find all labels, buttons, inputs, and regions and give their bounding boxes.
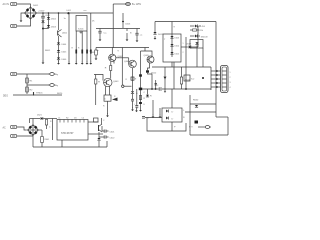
svg-text:R·: R·	[183, 117, 185, 119]
resistor R602 column	[68, 13, 70, 62]
transistor Q602	[109, 54, 124, 61]
wire pin3	[211, 78, 221, 80]
wire CRT mid right edge	[210, 67, 212, 90]
wire T601 primary feed	[171, 22, 173, 35]
svg-text:C621: C621	[110, 131, 116, 133]
resistor R605 column	[86, 31, 90, 62]
ground Q601 column	[57, 61, 60, 65]
ground chain	[139, 108, 142, 112]
text R630	[193, 100, 199, 102]
ground C606	[99, 38, 102, 42]
capacitor C601	[41, 13, 51, 62]
diode D627 on x165	[164, 77, 167, 80]
svg-text:1: 1	[230, 72, 231, 74]
junction A R text	[150, 96, 152, 98]
junction dot x186 rail	[185, 88, 187, 90]
svg-text:Q603: Q603	[113, 81, 119, 83]
svg-text:···: ···	[189, 130, 191, 132]
wire snubber branch	[122, 13, 124, 28]
wire IC right to Q606	[88, 121, 99, 123]
wire drive rail	[96, 47, 149, 49]
svg-text:1: 1	[183, 43, 184, 45]
ground C601	[42, 61, 45, 65]
wire right rail y89	[140, 88, 211, 90]
wire box drop	[171, 122, 173, 131]
resistor R612 row2	[190, 29, 203, 32]
text bus aa	[84, 10, 88, 12]
wire right partition	[215, 22, 217, 118]
text T601 pins	[183, 43, 184, 54]
text T601	[164, 39, 166, 41]
wire drive to Q605	[141, 48, 153, 57]
wire B+ horizontal	[113, 3, 125, 5]
svg-text:D3: D3	[74, 118, 76, 120]
svg-text:Q604: Q604	[124, 61, 130, 63]
ground R603	[75, 61, 78, 65]
ground R606	[89, 61, 92, 65]
diode D625	[166, 110, 174, 114]
wire column x52	[49, 119, 53, 141]
diode on C601 column	[41, 21, 44, 23]
wire Q603 base	[94, 75, 103, 81]
wire x172 from rail	[171, 89, 173, 108]
text IC601 inside	[61, 132, 74, 135]
wire pin5	[211, 86, 221, 88]
bridge rectifier D601	[24, 7, 37, 20]
svg-text:D614: D614	[175, 46, 180, 48]
text connector pins	[230, 72, 231, 89]
resistor R642	[139, 96, 145, 101]
resistor R610 branch	[95, 75, 101, 106]
junction node bus	[67, 10, 72, 14]
wire bridge bottom to terminal J2	[17, 20, 31, 27]
wire bottom rail	[33, 146, 107, 148]
diode D613	[170, 36, 179, 40]
wire B+ feed vertical	[112, 4, 114, 48]
resistor R606 column	[90, 13, 95, 62]
wire deg horizontal 85	[27, 84, 50, 86]
diode D602	[47, 17, 57, 21]
svg-text:3: 3	[230, 82, 231, 84]
svg-text:Q601: Q601	[62, 33, 68, 35]
wire Q602 leg b	[113, 61, 115, 64]
wire deg horizontal 74	[17, 73, 49, 75]
diode D619	[195, 105, 198, 107]
svg-text:IC601: IC601	[78, 29, 84, 31]
ground D611	[154, 36, 157, 40]
svg-text:B+ 115V: B+ 115V	[132, 3, 141, 6]
pin circle anode	[204, 126, 211, 129]
capacitor C608 column	[135, 29, 142, 39]
diode D621	[37, 115, 43, 121]
wire crt right edge	[227, 117, 229, 135]
resistor R608	[90, 48, 97, 58]
svg-text:D617: D617	[186, 44, 192, 46]
text AC input label	[3, 3, 10, 6]
transformer winding line	[171, 34, 173, 57]
wire fbt to pin	[198, 126, 204, 128]
wire Q604 emitter	[132, 68, 134, 91]
box aux left	[94, 118, 99, 122]
resistor R640	[45, 120, 52, 130]
svg-text:R2: R2	[66, 118, 68, 120]
text P label	[174, 127, 176, 129]
wire vertical x174	[173, 62, 175, 89]
svg-text:D602: D602	[51, 19, 57, 21]
diode D617	[181, 44, 198, 49]
resistor R604 column	[78, 31, 83, 62]
diode D618 row1	[190, 25, 206, 29]
wire bridge2 top diode	[32, 119, 34, 125]
diode D606	[57, 58, 67, 62]
wire Q604 base	[116, 58, 129, 64]
text bus voltage	[38, 11, 45, 13]
svg-text:DEG: DEG	[3, 96, 8, 98]
resistor R641	[39, 130, 50, 147]
capacitor C620	[102, 126, 104, 131]
wire T601 bottom pin	[171, 62, 173, 67]
wire main HV bus	[37, 12, 113, 14]
wire crt bottom left edge	[189, 112, 191, 135]
ground x160	[159, 108, 162, 118]
resistor R622	[26, 87, 33, 92]
svg-text:2: 2	[230, 77, 231, 79]
diode D611 to ground	[153, 22, 163, 37]
box IC inside	[184, 75, 195, 81]
svg-text:R620: R620	[57, 93, 63, 95]
svg-text:C622: C622	[110, 137, 116, 139]
junction dot crt	[202, 77, 204, 79]
text above IC	[58, 118, 84, 120]
wire bridge left stub	[21, 13, 24, 19]
diode D622	[97, 132, 100, 147]
wire crt bottom edge	[190, 134, 228, 136]
svg-text:2: 2	[183, 52, 184, 54]
diode D605	[57, 50, 67, 58]
transistor Q603	[104, 78, 120, 86]
svg-text:H·V: H·V	[189, 127, 193, 129]
wire crt step edge	[216, 116, 228, 118]
diode D604	[57, 43, 67, 51]
transistor Q601	[58, 30, 68, 38]
text winding 9	[174, 27, 176, 29]
ground C608	[136, 39, 139, 43]
text B+ 115V	[132, 3, 141, 6]
capacitor C631	[142, 117, 149, 120]
ground R608	[95, 57, 98, 61]
ground x153	[152, 100, 155, 118]
fuse F601	[126, 2, 131, 5]
box remote RB4	[162, 108, 182, 122]
diode D616 row	[190, 35, 208, 39]
svg-text:R601: R601	[45, 50, 51, 52]
junction dot C601	[42, 28, 44, 30]
ground R602	[68, 61, 71, 65]
wire bias down	[103, 101, 108, 114]
connector CN601	[221, 66, 229, 93]
text label 1a	[64, 18, 67, 20]
text R601	[45, 50, 51, 52]
wire crt lower rail upper	[190, 103, 216, 105]
wire rail upturn	[106, 141, 108, 147]
svg-text:C4: C4	[82, 118, 84, 120]
component fbt blob	[195, 121, 199, 124]
wire standby out	[88, 133, 103, 135]
box heater	[190, 40, 203, 49]
junction dots bus	[42, 12, 59, 14]
resistor zigzag on x1325	[126, 77, 138, 81]
capacitor C605 mark	[122, 22, 131, 26]
svg-text:+310V: +310V	[38, 11, 45, 13]
ground C630	[135, 109, 138, 113]
stub open circle	[122, 85, 132, 87]
transistor Q606	[99, 118, 106, 132]
diode D603	[47, 25, 57, 29]
ground col x132	[131, 94, 134, 111]
wire right rail y67	[152, 66, 211, 68]
ground at bridge left	[20, 19, 23, 23]
svg-text:Q605: Q605	[144, 55, 150, 57]
wire deg line	[13, 93, 63, 95]
diode D629	[131, 91, 138, 95]
junction dot x1555 rail	[155, 88, 157, 90]
diode D614	[170, 44, 179, 48]
wire branch D602	[43, 13, 49, 29]
wire Q605 emitter	[148, 63, 150, 71]
wire pin2	[211, 74, 221, 76]
text fbt	[189, 127, 193, 132]
wire top rail right	[155, 21, 216, 23]
wire Q605 emitter chain	[148, 73, 153, 89]
junction emitter rail	[151, 88, 153, 90]
svg-text:C605: C605	[125, 24, 131, 26]
wire Q601 to chain	[58, 36, 60, 43]
resistor R611	[180, 67, 190, 89]
wire right vertical x186	[185, 37, 187, 89]
transformer T601 box	[163, 34, 181, 62]
svg-text:D615: D615	[175, 54, 180, 56]
component pot arrow	[112, 96, 118, 101]
resistor R621	[26, 78, 33, 83]
svg-text:STR-S6707: STR-S6707	[61, 132, 74, 135]
wire Q602 collector	[111, 48, 113, 55]
wire pin4	[211, 82, 221, 84]
wire vertical x165	[164, 67, 166, 89]
box bias network	[104, 95, 111, 101]
diode D626	[166, 117, 174, 121]
wire bridge2 bottom	[32, 136, 34, 147]
text AC2 label	[3, 126, 7, 129]
svg-text:D·: D·	[172, 112, 174, 114]
ground bias	[106, 114, 109, 118]
capacitor C606 column	[98, 29, 107, 38]
svg-text:+C: +C	[140, 35, 143, 37]
wire pin1	[211, 70, 221, 72]
capacitor C621	[104, 130, 115, 134]
wire J1 to bridge top	[17, 4, 31, 7]
wire C631 to box	[145, 117, 162, 119]
wire J3 to bridge2	[17, 127, 27, 130]
diode D628 end	[146, 95, 149, 97]
capacitor C630	[134, 89, 138, 109]
text rail label	[96, 49, 120, 52]
text deg left	[3, 96, 8, 98]
text pin J	[183, 110, 185, 119]
svg-text:1N4148: 1N4148	[201, 36, 209, 38]
terminal J1 AC line	[11, 2, 17, 5]
capacitor C607 column	[127, 29, 132, 38]
svg-text:D601: D601	[33, 5, 39, 7]
IC pins ticks	[60, 120, 84, 123]
svg-text:R608: R608	[90, 52, 96, 54]
terminal DEG1	[11, 72, 17, 75]
terminal J4	[11, 134, 17, 137]
wire L below box	[147, 118, 186, 132]
svg-text:R1k: R1k	[200, 30, 204, 32]
terminal J3	[11, 125, 17, 128]
ground stub x165	[164, 89, 166, 93]
ground R605	[86, 61, 89, 65]
ground R604	[81, 61, 84, 65]
wire branch Q601 column	[58, 13, 60, 30]
transistor Q604	[124, 60, 136, 68]
text bridge label	[33, 5, 39, 7]
wire deg branch	[26, 74, 28, 94]
wire Q603 legs	[106, 86, 110, 95]
IC box control	[76, 16, 87, 34]
svg-text:D·: D·	[172, 119, 174, 121]
bridge rectifier D620	[27, 124, 39, 136]
wire mid vertical x122	[121, 48, 123, 85]
wire stub below rail	[147, 89, 149, 95]
diode D624	[139, 102, 145, 106]
pin circle DEG out2	[49, 84, 59, 88]
wire IC bottom to rail	[61, 140, 63, 147]
component thermistor	[34, 92, 44, 96]
wire vertical x203	[202, 48, 204, 67]
wire snubber rail	[96, 28, 140, 30]
svg-text:R630: R630	[193, 100, 199, 102]
wire crt lower rail	[185, 111, 216, 113]
wire right vertical x198	[197, 26, 199, 47]
svg-text:D613: D613	[175, 38, 180, 40]
IC601 STR box	[57, 120, 88, 141]
capacitor stub x1557	[155, 80, 158, 89]
svg-text:C1: C1	[58, 118, 60, 120]
wire crt lower left	[189, 95, 191, 112]
svg-text:AC: AC	[3, 126, 7, 129]
wire Q602 emitter leg	[110, 61, 112, 66]
diode chain D623	[139, 51, 146, 108]
resistor R609	[105, 66, 112, 71]
svg-text:TH601: TH601	[36, 93, 43, 95]
transistor Q605	[144, 55, 155, 63]
wire R609 to Q603	[110, 71, 112, 79]
terminal J2 AC neutral	[11, 24, 17, 27]
resistor R603 column	[72, 31, 78, 62]
svg-text:D603: D603	[51, 27, 57, 29]
ground C607	[126, 38, 129, 42]
wire standby top	[30, 119, 58, 124]
diode D619b	[195, 42, 198, 67]
svg-text:AC IN: AC IN	[3, 3, 10, 6]
capacitor C622	[99, 135, 115, 139]
wire J4 to bridge2	[17, 135, 33, 137]
svg-text:4: 4	[230, 87, 231, 89]
capacitor C632 series	[157, 85, 161, 91]
pin circle DEG out1	[49, 73, 59, 77]
diode D612	[146, 70, 157, 74]
diode D615	[170, 52, 179, 56]
